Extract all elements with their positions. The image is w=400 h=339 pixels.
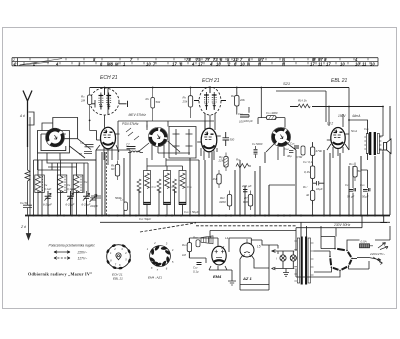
choke in V2 anode [236, 164, 251, 169]
svg-text:L3 2: L3 2 [327, 122, 333, 126]
wire HT line y106.5 [290, 106, 383, 108]
cap 0,1u EM4 [197, 263, 202, 265]
cap below Cg [84, 152, 92, 154]
coil L1 [35, 176, 42, 193]
wire heater line y222.3 [100, 221, 390, 223]
svg-text:1M: 1M [182, 253, 187, 257]
tube V1 pins [96, 145, 119, 165]
wire IF top frame [118, 121, 214, 160]
svg-text:10µF: 10µF [316, 187, 323, 191]
envelope E2 extra leads [194, 88, 226, 111]
coil inside L7 [165, 173, 170, 188]
socket base ECH21/EBL21 [106, 244, 131, 270]
svg-text:ECH 21: ECH 21 [202, 78, 220, 84]
resistor C10 small [124, 202, 128, 211]
side coil L8 [173, 179, 177, 193]
svg-text:ECH 21: ECH 21 [100, 75, 118, 81]
svg-text:10: 10 [240, 61, 245, 66]
tube V1 ECH21 hexode [97, 127, 120, 149]
resistor R6 (x198) [188, 88, 192, 119]
svg-text:127V~: 127V~ [78, 257, 88, 261]
cap 100 small [289, 151, 293, 153]
tube symbol ECH21-b (envelope) [199, 87, 221, 115]
ground arrow [26, 216, 30, 240]
lamp wires [274, 251, 294, 269]
svg-text:200 µF: 200 µF [241, 184, 252, 188]
bank1 former L2 [57, 175, 67, 193]
bank2 top wires [147, 158, 199, 166]
dial scale ruler [12, 57, 378, 66]
resistor 60 [115, 161, 119, 181]
side coil L6 [137, 179, 141, 193]
wire V3 top feeds [329, 88, 349, 151]
wires L7 [159, 166, 167, 216]
svg-text:AZ 1: AZ 1 [242, 276, 252, 281]
svg-text:6-25pF: 6-25pF [66, 203, 75, 207]
IF can windings [173, 129, 193, 155]
electrolytic 50uF [349, 188, 356, 191]
svg-text:220V~: 220V~ [77, 251, 88, 255]
svg-text:17: 17 [310, 61, 315, 66]
wire junction to V1 grid [90, 131, 97, 141]
resistor horizontal above EM4 [196, 240, 200, 247]
junction dots on top lines [104, 87, 106, 89]
svg-text:17: 17 [198, 61, 203, 66]
svg-text:Ca 50: Ca 50 [20, 201, 28, 205]
IF former L7 [164, 171, 171, 205]
side coil L7 [157, 179, 161, 193]
svg-text:M8: M8 [107, 61, 113, 66]
wire 236 drop [236, 88, 238, 115]
antenna tap bracket [29, 112, 35, 125]
wire to rectifier y230 [210, 230, 296, 232]
tube V1 top connections [105, 88, 109, 128]
capacitor 100 [240, 115, 249, 117]
svg-text:PSN 57kHz: PSN 57kHz [122, 122, 139, 126]
svg-text:Odbiornik radiowy „Mazur IV”: Odbiornik radiowy „Mazur IV” [28, 271, 93, 276]
selector wires [314, 251, 358, 258]
svg-text:EM4 ; AZ1: EM4 ; AZ1 [148, 276, 162, 280]
svg-text:0,1µ: 0,1µ [193, 270, 199, 274]
tube V2 ECH21 [197, 128, 221, 152]
svg-text:17: 17 [326, 61, 331, 66]
svg-text:10: 10 [355, 61, 360, 66]
resistor 4000 horizontal [267, 116, 277, 120]
svg-text:0,1µF: 0,1µF [67, 187, 74, 191]
power transformer windings [294, 238, 313, 283]
svg-text:17: 17 [172, 61, 177, 66]
wire left verticals [30, 117, 34, 216]
bottom pad cap L8 [179, 203, 186, 205]
trimmer pair mid [126, 128, 139, 140]
svg-text:410pF: 410pF [90, 204, 98, 208]
svg-text:Z d: Z d [20, 225, 26, 229]
padder caps bank1 [91, 193, 101, 203]
wire dashed 127V link [140, 223, 296, 232]
svg-text:0,5A: 0,5A [361, 240, 367, 244]
coil L3 [74, 176, 81, 193]
IF can outline [169, 127, 196, 159]
svg-text:10: 10 [216, 61, 221, 66]
legend solid arrow 220V [54, 251, 70, 253]
coupling cap Cg [85, 145, 94, 147]
wire AVC line y150 [96, 149, 130, 151]
coil inside L6 [145, 173, 150, 188]
svg-text:A d: A d [19, 114, 25, 118]
svg-text:220/127V~: 220/127V~ [369, 252, 385, 256]
wire S3 drops [266, 144, 296, 160]
vertical wires to bus [96, 106, 390, 215]
voltage selector switch [329, 248, 353, 271]
trimmer near x93 [90, 195, 98, 203]
L4 coil cone [201, 236, 213, 244]
arrow left bottom [272, 267, 276, 270]
EM4 wires [189, 238, 251, 281]
svg-text:22k: 22k [218, 159, 224, 163]
HV wire to transformer [277, 245, 279, 254]
wire drum to tube diagonal [60, 139, 96, 160]
anode resistor zigzag R 1k [298, 104, 310, 108]
selector loop wires [296, 237, 369, 278]
transformer top wire [301, 222, 307, 236]
dial lamp 2 [290, 255, 296, 261]
wire loop around drum S1 [38, 131, 70, 153]
bottom verticals [210, 226, 390, 290]
mains arrows [370, 243, 389, 250]
fuse 0,5A [360, 244, 370, 248]
svg-text:EBL 21: EBL 21 [113, 277, 123, 281]
bank1 top connections [34, 160, 97, 170]
svg-text:100 pF: 100 pF [244, 119, 253, 123]
series capacitor C 50pF [23, 203, 32, 216]
resistor R5 (x153) [151, 88, 155, 122]
wire S2 bottom drops [147, 125, 164, 161]
bank1 wires [38, 160, 88, 216]
resistor 4k [310, 187, 314, 205]
resistor 20k [235, 92, 239, 111]
svg-text:EBL 21: EBL 21 [331, 78, 348, 84]
svg-text:230V 50Hz: 230V 50Hz [333, 223, 351, 227]
trimmer capacitor under L1 [44, 191, 51, 216]
svg-text:150V: 150V [338, 114, 346, 118]
svg-text:11: 11 [318, 61, 323, 66]
resistor 3300 [227, 191, 231, 211]
svg-text:600: 600 [243, 200, 248, 204]
tube V3 pins [327, 144, 349, 158]
svg-text:C27 0,1: C27 0,1 [303, 160, 313, 164]
svg-text:60: 60 [111, 167, 115, 171]
wire S2 diagonals [138, 141, 190, 153]
electrolytic cap 25uF [243, 190, 247, 192]
capacitor 10n horizontal [313, 181, 325, 185]
AZ1 wires [240, 238, 278, 290]
bottom pad cap L7 [164, 203, 171, 205]
resistor Ra (left of E1) [87, 88, 91, 131]
speaker [384, 139, 392, 154]
resistor 1M (EM4 grid) [187, 238, 191, 258]
svg-text:MEV 57kHz: MEV 57kHz [129, 113, 147, 117]
coil L2 [58, 176, 65, 193]
arrow left top [272, 250, 276, 253]
wire inner loop to EBL21 grid [276, 91, 326, 122]
resistor 0,5M small [301, 146, 305, 155]
bandswitch drum S1 [45, 127, 66, 148]
coil inside L8 [180, 173, 185, 188]
trimmer capacitor under L3 [83, 191, 90, 216]
capacitor C 5000 [254, 146, 258, 158]
ground bus end symbol [380, 216, 387, 223]
svg-text:0,1µF: 0,1µF [44, 187, 51, 191]
svg-text:C7: C7 [126, 143, 130, 147]
IF former L6 [144, 171, 151, 205]
svg-text:10: 10 [370, 61, 375, 66]
tube V2 top connections [205, 113, 215, 130]
svg-text:L4: L4 [225, 236, 229, 240]
speaker top wire [382, 107, 384, 161]
svg-text:44mA: 44mA [352, 114, 360, 118]
lightning arrester coil [25, 147, 30, 203]
svg-text:3300: 3300 [219, 200, 226, 204]
resistor 600 [248, 191, 252, 211]
svg-text:10: 10 [146, 61, 151, 66]
switch arm [357, 257, 369, 259]
svg-text:470k: 470k [316, 149, 323, 153]
svg-text:S21: S21 [283, 81, 290, 86]
output transformer wires [349, 120, 383, 160]
tube V3 EBL21 [327, 128, 349, 149]
svg-text:R14 1k: R14 1k [298, 99, 307, 103]
bandswitch drum S2 [148, 127, 167, 146]
wire top distribution y87.5 [90, 87, 349, 89]
tube AZ1 [240, 239, 254, 257]
svg-text:20k: 20k [239, 98, 245, 102]
electrolytic 50uF b [363, 188, 370, 191]
svg-text:6-25pF: 6-25pF [43, 203, 52, 207]
svg-text:L5: L5 [257, 245, 261, 249]
svg-text:25k: 25k [182, 100, 188, 104]
tube V2 pins [201, 148, 217, 160]
svg-text:Polaczenia przetwornika napiec: Polaczenia przetwornika napiec [49, 244, 96, 248]
svg-text:50: 50 [79, 152, 83, 156]
dial lamp 1 [280, 255, 286, 261]
EM4 ground [228, 281, 236, 285]
svg-text:10: 10 [340, 61, 345, 66]
antenna [23, 91, 32, 148]
resistor 0,1M [310, 162, 314, 183]
legend dashed arrow 127V [54, 257, 70, 259]
wire drum top link [53, 118, 78, 139]
socket base EM4/AZ1 [147, 241, 174, 272]
wires L8 [175, 166, 183, 216]
svg-text:C21 50µF: C21 50µF [139, 217, 151, 221]
svg-text:C9 5000: C9 5000 [252, 142, 263, 146]
junction on x89.6 [89, 120, 91, 122]
output transformer core [364, 132, 381, 155]
tube symbol ECH21-a (envelope) [90, 88, 119, 115]
ground bus [25, 215, 390, 217]
wire loops under drum1 [38, 123, 89, 170]
svg-text:78: 78 [186, 57, 191, 62]
power transformer core [302, 237, 306, 285]
small coil between [128, 151, 143, 153]
power box outline [269, 185, 295, 216]
capacitor C 0,1 [294, 146, 299, 148]
resistor 470k [310, 143, 314, 160]
resistor 22k [224, 153, 228, 172]
lamp ground [283, 269, 289, 277]
svg-text:C19 4000: C19 4000 [266, 111, 278, 115]
dashed AVC drop [106, 152, 108, 215]
wire chain x312 [312, 142, 314, 216]
capacitor C7 [127, 147, 136, 149]
bank1 former L3 [73, 175, 83, 193]
resistor 5k [353, 163, 357, 182]
bandswitch drum S3 [270, 126, 292, 148]
svg-text:4k: 4k [306, 193, 310, 197]
bank1 former L1 [35, 175, 45, 193]
envelope E1 extra leads [101, 88, 128, 110]
IF former L8 [179, 171, 186, 205]
resistor 1M [217, 170, 221, 188]
svg-text:1M: 1M [213, 177, 218, 181]
svg-text:2M: 2M [80, 99, 86, 103]
wires around 4000 [249, 88, 285, 128]
wires L6 [139, 166, 147, 216]
svg-text:30µ: 30µ [287, 154, 292, 158]
svg-text:EM4: EM4 [213, 274, 222, 279]
bottom pad cap L6 [144, 203, 151, 205]
svg-text:M: M [115, 61, 119, 66]
tube EM4 indicator [212, 246, 226, 265]
svg-text:50k: 50k [156, 100, 161, 104]
capacitor Ca 500 [223, 132, 230, 146]
svg-text:5mA: 5mA [351, 129, 357, 133]
trimmer capacitor under L2 [67, 191, 74, 216]
mains arrow lower [369, 257, 383, 264]
svg-text:0,5M: 0,5M [296, 155, 303, 159]
wires right caps [353, 156, 368, 216]
junction dots on bus [32, 214, 34, 216]
svg-text:500: 500 [230, 138, 235, 142]
svg-text:0,1M: 0,1M [304, 170, 311, 174]
svg-text:11: 11 [362, 61, 367, 66]
wire inner loop S1 [41, 134, 66, 151]
wire mains top y227.5 [296, 216, 362, 228]
